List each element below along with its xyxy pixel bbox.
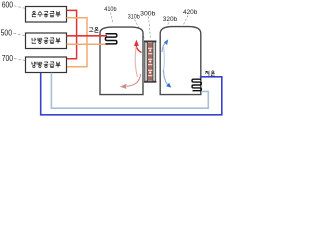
- module TE elements: [148, 42, 152, 80]
- box 700 naengbang supply: [26, 57, 67, 73]
- coil hot (goon): [105, 34, 116, 44]
- text onsu-gonggeup-bu: [32, 11, 61, 17]
- svg-text:410b: 410b: [104, 6, 117, 13]
- svg-text:500: 500: [1, 28, 13, 38]
- leader 600: [14, 6, 25, 9]
- module 300b top cap: [144, 41, 156, 43]
- box 500 nanbang supply: [26, 33, 67, 49]
- leader 310b: [135, 20, 145, 39]
- leader 700: [14, 58, 25, 60]
- label goon (hot): [89, 27, 99, 32]
- hot tank rise arrow: [136, 45, 141, 53]
- wire dark blue box700 to cold tank: [41, 73, 222, 115]
- label jeoon (cold): [205, 71, 215, 76]
- svg-text:320b: 320b: [163, 16, 178, 23]
- module 300b bottom cap: [144, 81, 156, 83]
- leader 410b: [111, 13, 114, 24]
- text naengbang-gonggeup-bu: [32, 62, 61, 68]
- hot tank bottom arrow: [127, 74, 141, 86]
- hot tank inner flow curve: [135, 47, 137, 77]
- svg-text:600: 600: [2, 0, 14, 10]
- wire red box500 to hot coil: [67, 35, 108, 37]
- coil cold (jeon): [192, 79, 201, 91]
- svg-text:300b: 300b: [140, 10, 155, 17]
- leader 300b: [149, 17, 151, 40]
- cold tank inner flow curve: [163, 46, 164, 72]
- tank 410b hot: [100, 27, 143, 95]
- wire red box600 to box700: [67, 10, 77, 58]
- module plate 320b: [153, 42, 156, 81]
- svg-text:420b: 420b: [183, 9, 198, 16]
- wire light blue box700 to cold coil: [51, 73, 208, 108]
- tank 420b cold: [160, 27, 201, 95]
- svg-text:310b: 310b: [128, 13, 140, 20]
- text nanbang-gonggeup-bu: [32, 38, 61, 44]
- box 600 onsu supply: [26, 7, 67, 23]
- module plate 310b: [145, 42, 148, 81]
- wire orange box500 to hot coil: [67, 43, 109, 45]
- cold tank sink arrow: [163, 70, 167, 85]
- leader 500: [14, 33, 26, 35]
- leader 420b: [184, 16, 189, 25]
- cold tank top arrow: [162, 43, 166, 53]
- wire orange box600 to box700: [67, 18, 88, 67]
- svg-text:700: 700: [2, 53, 14, 63]
- leader 320b: [163, 23, 169, 46]
